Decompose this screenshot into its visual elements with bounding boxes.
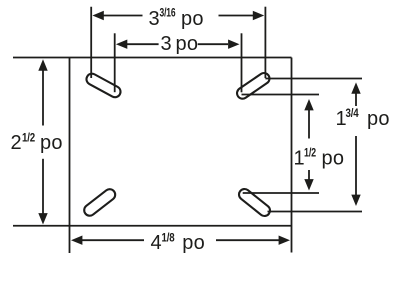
slot hole top-right (235, 71, 272, 101)
svg-text:3/4: 3/4 (346, 108, 360, 120)
svg-text:3: 3 (149, 8, 160, 30)
arrowhead up of 1 3/4 po dimension (351, 82, 360, 93)
svg-text:po: po (367, 108, 390, 130)
arrowhead right of 3 po dimension (228, 40, 239, 49)
dimension 3 3/16 right shaft (219, 15, 255, 17)
dimension 4 1/8 po left shaft (80, 239, 144, 241)
arrowhead right of 4 1/8 po dimension (279, 236, 290, 245)
arrowhead up of 2 1/2 po dimension (38, 59, 47, 70)
slot hole bottom-left (82, 187, 117, 218)
arrowhead down of 1 3/4 po dimension (351, 195, 360, 206)
arrowhead down of 1 1/2 po dimension (304, 179, 313, 190)
arrowhead down of 2 1/2 po dimension (38, 213, 47, 224)
svg-text:1/2: 1/2 (22, 133, 35, 145)
slot hole top-left (85, 72, 123, 99)
arrowhead up of 1 1/2 po dimension (304, 99, 313, 110)
wire line B from top-right slot lower end (242, 94, 320, 96)
dimension 3 3/16 left shaft (103, 15, 143, 17)
label 4 1/8 po (151, 232, 205, 254)
svg-text:3: 3 (161, 33, 172, 55)
extension line left for 3 3/16 dimension (90, 7, 92, 78)
extension line right for 3 3/16 dimension (264, 7, 266, 78)
label 1 1/2 po (294, 147, 345, 169)
svg-text:1/2: 1/2 (304, 148, 316, 160)
dimension 2 1/2 po lower shaft (42, 159, 44, 216)
svg-text:4: 4 (151, 232, 162, 254)
label 2 1/2 po (11, 132, 63, 154)
extension line right for 3 po dimension (241, 33, 243, 92)
plate bottom edge (13, 225, 292, 227)
svg-text:po: po (322, 147, 345, 169)
svg-text:2: 2 (11, 132, 22, 154)
svg-text:po: po (182, 232, 205, 254)
arrowhead right of 3 3/16 dimension (253, 11, 264, 20)
extension line left for 3 po dimension (114, 33, 116, 92)
wire line A from top-right slot upper end (265, 78, 362, 80)
svg-text:po: po (181, 8, 204, 30)
dimension 1 1/2 po upper shaft (308, 109, 310, 139)
label 1 3/4 po (336, 108, 390, 130)
slot hole bottom-right (237, 187, 272, 218)
dimension 3 po left shaft (126, 43, 159, 45)
svg-text:1/8: 1/8 (162, 233, 176, 245)
svg-text:po: po (40, 132, 63, 154)
plate left edge (69, 58, 71, 254)
wire line C from bottom-right slot upper end (243, 192, 319, 194)
arrowhead left of 3 po dimension (116, 40, 127, 49)
dimension 1 3/4 po lower shaft (355, 136, 357, 195)
svg-text:po: po (176, 33, 199, 55)
svg-text:3/16: 3/16 (160, 8, 176, 20)
label 3 3/16 po (149, 8, 204, 30)
dimension 4 1/8 po right shaft (216, 239, 281, 241)
dimension 2 1/2 po upper shaft (42, 68, 44, 126)
arrowhead left of 4 1/8 po dimension (71, 236, 82, 245)
dimension 1 1/2 po lower shaft (308, 170, 310, 182)
dimension 1 3/4 po upper shaft (355, 92, 357, 106)
wire line D from bottom-right slot lower end (268, 211, 363, 213)
dimension 3 po right shaft (198, 43, 228, 45)
label 3 po (161, 33, 199, 55)
plate right edge (291, 58, 293, 253)
plate top edge (13, 57, 292, 59)
arrowhead left of 3 3/16 dimension (92, 11, 103, 20)
